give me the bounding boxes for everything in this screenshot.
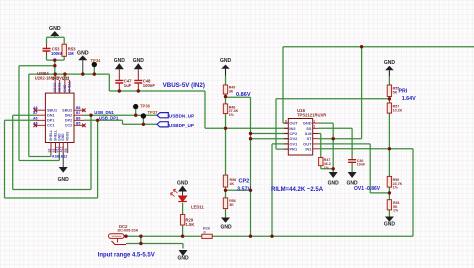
svg-text:GND: GND [220, 224, 232, 230]
svg-text:USB_DP1: USB_DP1 [99, 115, 119, 120]
svg-text:B6: B6 [76, 116, 80, 120]
svg-text:TP37: TP37 [148, 110, 159, 115]
svg-text:GND: GND [177, 256, 189, 262]
svg-text:B9: B9 [64, 148, 68, 152]
svg-text:3K: 3K [229, 90, 234, 94]
svg-text:GND: GND [384, 221, 396, 227]
svg-text:PR1: PR1 [289, 147, 298, 152]
svg-text:CC1: CC1 [47, 124, 55, 128]
svg-text:DN1: DN1 [47, 114, 55, 118]
svg-text:1%: 1% [229, 113, 235, 117]
svg-text:USBDP_UP: USBDP_UP [169, 123, 194, 128]
svg-text:1uF: 1uF [124, 83, 132, 88]
svg-text:A5: A5 [33, 121, 37, 125]
svg-text:A7: A7 [33, 111, 37, 115]
svg-text:100nF: 100nF [143, 83, 156, 88]
svg-text:GND: GND [133, 58, 145, 64]
svg-text:1: 1 [313, 120, 315, 124]
svg-text:VBUS: VBUS [66, 131, 70, 141]
svg-text:0: 0 [204, 230, 206, 234]
svg-text:S1: S1 [66, 76, 70, 80]
svg-text:GND: GND [384, 60, 396, 66]
svg-text:SHELL: SHELL [67, 81, 71, 92]
svg-text:VBUS: VBUS [53, 82, 57, 92]
svg-text:1%: 1% [393, 208, 399, 212]
svg-text:GND: GND [220, 58, 232, 64]
svg-text:10.2K: 10.2K [393, 108, 403, 112]
svg-text:1%: 1% [324, 166, 330, 170]
svg-text:SBU1: SBU1 [47, 109, 57, 113]
svg-text:VBUS: VBUS [58, 82, 62, 92]
svg-text:S2: S2 [47, 148, 51, 152]
svg-text:GND: GND [61, 133, 65, 141]
svg-text:B7: B7 [76, 111, 80, 115]
svg-text:1.5K: 1.5K [186, 222, 195, 227]
svg-text:OV1 -0.86V: OV1 -0.86V [354, 186, 381, 192]
svg-text:B12: B12 [61, 154, 67, 158]
svg-text:3.57V: 3.57V [237, 187, 251, 193]
svg-text:8: 8 [285, 119, 287, 123]
svg-text:GND: GND [58, 177, 70, 183]
svg-text:A1B1: A1B1 [52, 154, 61, 158]
svg-text:SHELL: SHELL [49, 130, 53, 141]
svg-text:1.64V: 1.64V [402, 96, 416, 102]
svg-text:DC-005-20A: DC-005-20A [118, 228, 139, 232]
svg-text:1%: 1% [393, 186, 399, 190]
svg-text:RILM=44.2K ~2.5A: RILM=44.2K ~2.5A [271, 187, 324, 193]
svg-text:GND: GND [177, 181, 189, 187]
svg-text:GND: GND [328, 181, 340, 187]
svg-text:A1: A1 [61, 76, 65, 80]
svg-text:GND: GND [77, 51, 89, 57]
svg-text:A6: A6 [33, 116, 37, 120]
svg-text:PRI: PRI [399, 88, 408, 94]
svg-text:GND: GND [114, 58, 126, 64]
svg-text:Input range 4.5-5.5V: Input range 4.5-5.5V [98, 253, 155, 259]
svg-text:2: 2 [313, 125, 315, 129]
svg-text:USBDN_UP: USBDN_UP [169, 114, 194, 119]
svg-text:10nF: 10nF [357, 163, 366, 167]
svg-text:B8: B8 [76, 106, 80, 110]
svg-text:A9: A9 [56, 76, 60, 80]
svg-text:GND: GND [49, 26, 61, 32]
svg-text:CC2: CC2 [65, 124, 73, 128]
svg-text:A12: A12 [60, 146, 64, 152]
svg-text:DP2: DP2 [65, 119, 72, 123]
svg-text:3K: 3K [230, 182, 235, 186]
svg-text:TP36: TP36 [140, 104, 151, 109]
svg-text:DP1: DP1 [47, 119, 54, 123]
svg-text:LED11: LED11 [191, 205, 204, 210]
svg-text:3K: 3K [229, 203, 234, 207]
svg-text:CP2: CP2 [239, 178, 250, 184]
svg-text:B5: B5 [76, 121, 80, 125]
svg-text:SBU2: SBU2 [62, 109, 72, 113]
svg-text:DN2: DN2 [65, 114, 73, 118]
svg-text:TPS2121RUXR: TPS2121RUXR [297, 113, 326, 118]
svg-text:VBUS-5V (IN2): VBUS-5V (IN2) [163, 82, 205, 89]
svg-text:1M: 1M [68, 51, 74, 56]
svg-text:GND: GND [63, 84, 67, 92]
svg-text:A4: A4 [52, 76, 56, 80]
svg-text:TP34: TP34 [91, 58, 102, 63]
svg-text:A8: A8 [33, 106, 37, 110]
svg-text:IN1: IN1 [305, 147, 312, 152]
svg-text:0.86V: 0.86V [236, 92, 251, 98]
svg-text:5K: 5K [393, 90, 398, 94]
